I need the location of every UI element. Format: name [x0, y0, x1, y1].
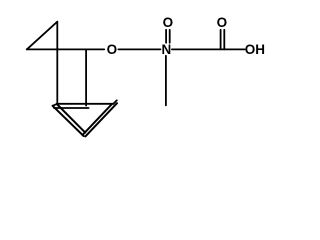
wire cage left edge inner: [57, 104, 85, 133]
wire cage top-right tick: [113, 100, 116, 104]
wire cage top-left tick: [53, 104, 57, 106]
svg-text:O: O: [107, 42, 118, 57]
wire N-CH3 bond: [165, 56, 167, 106]
wire N=O double bond line 2: [169, 30, 171, 43]
svg-text:O: O: [163, 15, 174, 30]
wire cage top edge upper: [57, 103, 114, 105]
svg-text:O: O: [217, 15, 228, 30]
wire bond O-N: [118, 48, 160, 50]
svg-text:N: N: [162, 42, 172, 57]
wire main chain bond line A-C1-C2-O: [27, 48, 104, 50]
wire cage right edge inner: [83, 104, 112, 135]
wire cage right edge outer: [85, 103, 117, 136]
svg-text:OH: OH: [245, 42, 265, 57]
wire vertical bond B-C1-P (apex through chain down to cage): [56, 22, 58, 104]
wire cyclopropane edge A-B (diagonal): [27, 22, 58, 50]
wire cage top edge lower: [54, 107, 89, 109]
wire vertical bond C2-W: [85, 49, 87, 105]
wire N=O double bond line 1: [165, 30, 167, 43]
wire C=O double bond line 2: [223, 30, 225, 50]
wire C=O double bond line 1: [220, 30, 222, 50]
wire bond N-C(=O)-OH: [172, 48, 245, 50]
wire cage left edge outer: [53, 106, 84, 136]
